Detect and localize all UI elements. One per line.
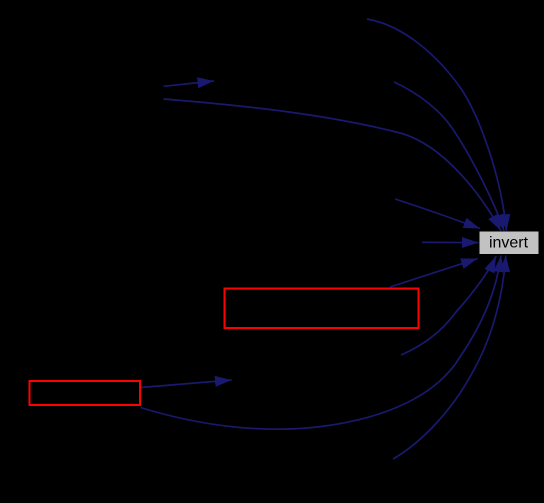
wire edge E10 mid-low node to invert bottom [401,256,496,355]
wire edge E4 upper node to invert [394,82,504,231]
node invert (current function) [480,232,539,255]
wire edge E5 diagonal to invert top-left corner [395,199,480,229]
wire edge E8 red node R2 sweeping to invert bottom [141,256,502,430]
wire edge E9 lower node to invert bottom [393,256,506,460]
wire edge E2 long top spline to invert [164,99,502,231]
node R2 truncated red box [30,381,141,405]
wire edge E1 hidden caller to hidden node [164,81,215,86]
svg-text:invert: invert [489,235,529,252]
wire edge E7 red node R1 to invert bottom-left corner [390,259,478,287]
node R1 truncated red box [225,289,419,329]
wire edge E11 red node R2 to hidden node [141,380,232,388]
wire edge E6 short horizontal to invert [422,241,479,243]
wire edge E3 top node to invert [367,19,507,231]
